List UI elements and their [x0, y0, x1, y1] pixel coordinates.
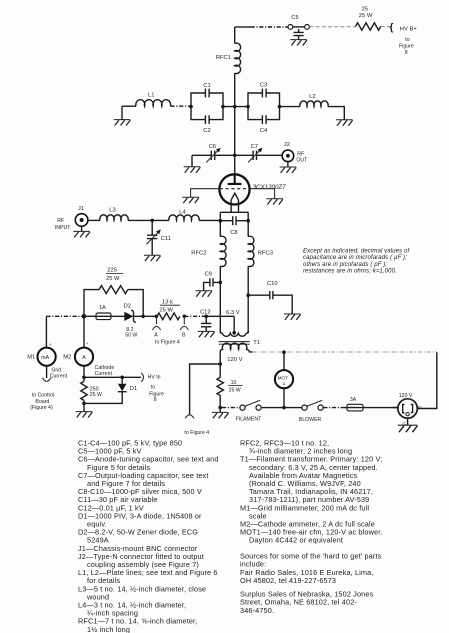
- wire meter line dash-dot: [46, 315, 84, 317]
- capacitor C9: [204, 272, 221, 291]
- svg-text:Dayton 4C442 or equivalent: Dayton 4C442 or equivalent: [249, 536, 343, 545]
- ground C12: [198, 331, 215, 337]
- diode D1: [84, 377, 137, 403]
- resistor 13k: [157, 299, 180, 319]
- wire L3 to L4: [128, 219, 169, 221]
- node C9 tap: [219, 281, 223, 285]
- wire filament switch to node: [261, 407, 302, 409]
- wire T1 center tap: [233, 316, 235, 333]
- inductor L2: [300, 94, 328, 107]
- wire M2 bottom: [83, 366, 85, 381]
- node filament bus: [218, 406, 222, 410]
- wire cathode bar: [220, 211, 248, 213]
- wire J1 to L3: [88, 219, 100, 221]
- capacitor C3: [260, 82, 267, 97]
- inductor RFC3: [248, 236, 273, 266]
- capacitor C2: [203, 115, 210, 134]
- node C11 tap: [150, 219, 154, 223]
- ground M2: [76, 412, 93, 418]
- transformer T1 secondary: [220, 331, 248, 337]
- ground C5: [290, 40, 307, 46]
- node meter junction: [82, 314, 87, 319]
- node C12: [204, 315, 208, 319]
- wire interlock left: [190, 364, 221, 414]
- wire fuse to plug: [369, 407, 398, 409]
- node motor top: [282, 350, 286, 354]
- label to Control Board: [30, 392, 54, 411]
- wire right leg lower: [247, 266, 249, 333]
- svg-text:346-4750.: 346-4750.: [240, 606, 274, 615]
- wire L2 to ground: [328, 107, 344, 120]
- tube anode: [228, 174, 242, 184]
- ground filament bus: [212, 408, 229, 419]
- connector J2: [282, 142, 308, 167]
- wire M1 drop: [45, 316, 47, 347]
- fuse F2 3A: [341, 397, 369, 411]
- capacitor C8: [220, 216, 248, 236]
- motor MOT1 blower: [275, 370, 293, 388]
- ground C9: [195, 291, 212, 297]
- node T1 center tap: [232, 331, 236, 335]
- capacitor C11 input variable: [146, 220, 171, 255]
- wire plug ground stem: [407, 418, 409, 425]
- wire C3 C4 loop: [248, 93, 280, 120]
- note units text: [303, 248, 410, 274]
- capacitor C6 anode tuning: [206, 144, 220, 163]
- tube filament: [231, 193, 238, 212]
- node C1C2 right: [221, 105, 225, 109]
- tube V1 3CX1200Z7 envelope: [219, 174, 249, 204]
- wire M2 drop: [83, 316, 85, 347]
- transformer T1 primary: [220, 343, 252, 364]
- node HV In hook: [141, 373, 164, 404]
- wire M2 to D1: [84, 376, 141, 378]
- node C8 left: [219, 219, 223, 223]
- node 13k right: [183, 315, 187, 319]
- wire left leg lower: [219, 266, 221, 333]
- resistor 10 ohm: [217, 364, 243, 408]
- parts list left column: [78, 439, 219, 633]
- wire L1 left: [122, 105, 136, 107]
- ground L2: [336, 120, 353, 126]
- wire grid right: [250, 189, 275, 199]
- wire 250 to ground node: [83, 400, 85, 411]
- ground L1: [114, 106, 131, 125]
- wire D2 to R13k: [134, 315, 158, 317]
- node C1C2 left: [189, 105, 193, 109]
- node C8 right: [246, 219, 250, 223]
- wire to filament switch: [222, 407, 240, 409]
- node ground bus: [82, 402, 86, 406]
- inductor L1: [136, 93, 171, 107]
- resistor 225 ohm loop: [84, 267, 143, 316]
- node 225 loop right: [141, 315, 145, 319]
- ground plug: [398, 425, 418, 432]
- diode D2 zener: [124, 304, 138, 339]
- tube grid dashed: [220, 188, 250, 190]
- fuse F1 1A: [96, 305, 111, 320]
- node B to Figure 4: [180, 316, 188, 338]
- node 13k left: [155, 315, 159, 319]
- node C3C4 right: [278, 105, 282, 109]
- node D1 top: [120, 376, 124, 380]
- node C10 tap: [246, 293, 250, 297]
- node M2 bottom: [82, 376, 86, 380]
- wire right leg upper: [247, 212, 249, 236]
- wire plate bus vertical: [234, 73, 236, 174]
- wire C1C2 to bus: [223, 106, 248, 108]
- wire left leg upper: [219, 212, 221, 236]
- transformer T1 core: [219, 342, 250, 345]
- ground grid left: [182, 197, 199, 203]
- wire tune row: [192, 154, 282, 156]
- wire C3C4 to L2: [280, 106, 301, 108]
- wire HV dash gray right of R: [381, 26, 391, 28]
- meter M2 cathode: [63, 341, 114, 377]
- wire HV top solid: [235, 26, 251, 28]
- wire 13k to C12 dash-dot: [184, 315, 206, 317]
- ground J2: [280, 167, 297, 173]
- node C3C4 left: [246, 105, 250, 109]
- inductor RFC2: [191, 236, 226, 266]
- ground C11: [144, 255, 161, 261]
- capacitor C10: [248, 281, 292, 314]
- resistor 25k HV: [356, 7, 381, 31]
- connector J1: [55, 206, 88, 232]
- wire meter line through fuse: [84, 315, 124, 317]
- wire AC top run: [253, 351, 437, 353]
- meter M1 grid: [27, 342, 67, 379]
- parts list right column: [240, 439, 383, 615]
- switch S1 FILAMENT: [236, 400, 262, 422]
- node motor bottom: [282, 406, 286, 410]
- wire grid left: [191, 189, 220, 198]
- node A to Figure 4: [152, 316, 160, 338]
- plug P1 120V: [393, 393, 421, 426]
- wire M1 bottom hook: [42, 366, 50, 381]
- wire plug to AC top: [417, 352, 437, 408]
- svg-text:OH 45802, tel 419-227-6573: OH 45802, tel 419-227-6573: [240, 576, 336, 585]
- wire HV top dash-dot: [251, 26, 288, 28]
- wire motor stems: [283, 352, 285, 407]
- wire L1 to C1C2 dashed: [170, 105, 191, 107]
- capacitor C1: [203, 83, 210, 98]
- wire C12 to center tap: [206, 315, 234, 317]
- wire HV dash gray left of R: [309, 26, 355, 28]
- capacitor C5 feedthrough: [288, 15, 309, 39]
- wire blower to fuse dash-dot: [323, 407, 341, 409]
- capacitor C7 output loading: [248, 144, 262, 163]
- inductor L3: [100, 208, 128, 221]
- inductor RFC1: [216, 43, 241, 73]
- node interlock hook: [185, 415, 194, 419]
- switch S2 BLOWER: [299, 400, 323, 423]
- node primary left tap: [218, 362, 222, 366]
- ground C10: [284, 314, 301, 320]
- wire L4 to cathode: [199, 219, 220, 221]
- node plate junction: [233, 105, 237, 109]
- ground grid right: [266, 199, 283, 205]
- resistor 250 ohm: [81, 381, 102, 400]
- capacitor C4: [260, 115, 268, 134]
- capacitor C12: [200, 309, 211, 331]
- node HV B+ to Figure 8: [390, 23, 418, 57]
- wire C1 C2 loop: [191, 93, 223, 120]
- wire HV to RFC1: [234, 27, 236, 44]
- ground C6 left: [184, 167, 201, 173]
- node anode tune junction: [233, 154, 237, 158]
- inductor L4: [169, 210, 199, 221]
- svg-text:1½ inch long: 1½ inch long: [87, 625, 130, 633]
- wire tune row left stub: [191, 155, 193, 167]
- ground J1: [73, 231, 90, 237]
